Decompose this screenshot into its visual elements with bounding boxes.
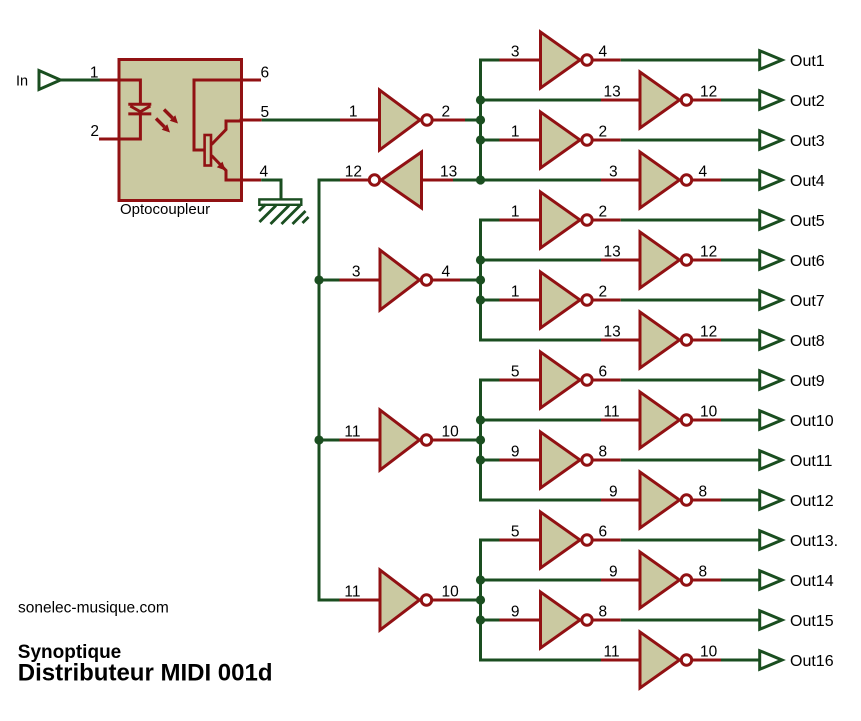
inverter Out16 [640, 632, 680, 688]
inverter Out2 input stub [601, 99, 641, 102]
node Out7 (output connector) [760, 291, 782, 310]
node Out3 (output connector) [760, 131, 782, 150]
pin 6 stub [240, 79, 262, 82]
inverter Out5 [541, 192, 581, 248]
wire driver y440 to right bus [460, 439, 481, 442]
node Out2 (output connector) [760, 91, 782, 110]
svg-text:2: 2 [599, 284, 608, 301]
inverter Out11 output stub [593, 459, 621, 462]
svg-text:8: 8 [699, 484, 708, 501]
inverter Out10 input stub [601, 419, 641, 422]
svg-text:2: 2 [442, 104, 451, 121]
inverter Out6 [640, 232, 680, 288]
svg-text:13: 13 [440, 164, 457, 181]
svg-text:5: 5 [261, 104, 270, 121]
inverter Out15 [541, 592, 581, 648]
inverter U2A [380, 90, 421, 150]
svg-text:Out13.: Out13. [790, 533, 838, 550]
wire pin6 inner to base [194, 80, 240, 150]
junction left bus y280 [314, 275, 323, 284]
inverter Out6 output stub [693, 259, 722, 262]
inverter Out11 [541, 432, 581, 488]
driver inverter y440 [380, 410, 420, 470]
light arrow 1 shaft [164, 110, 173, 119]
junction right bus y600 [476, 595, 485, 604]
wire left bus to driver y440 [319, 439, 340, 442]
inverter Out1 [541, 32, 581, 88]
inverter Out4 [640, 152, 680, 208]
inverter Out4 output stub [693, 179, 722, 182]
inverter Out12 output stub [693, 499, 722, 502]
junction right bus y120 [476, 115, 485, 124]
wire driver y280 to right bus [460, 279, 481, 282]
svg-text:Distributeur MIDI 001d: Distributeur MIDI 001d [18, 660, 273, 687]
wire driver y600 to right bus [460, 599, 481, 602]
wire Out2 to connector [721, 99, 760, 102]
LED D1 cathode bar [128, 112, 151, 115]
junction right bus y180 [476, 175, 485, 184]
driver inverter input stub y600 [340, 599, 382, 602]
svg-text:12: 12 [700, 324, 717, 341]
svg-text:Out6: Out6 [790, 253, 825, 270]
driver inverter input stub y440 [340, 439, 382, 442]
wire bus to inverter Out16 [479, 659, 601, 662]
junction right bus y260 [476, 255, 485, 264]
wire bus to inverter Out6 [479, 259, 601, 262]
ground hatch 2 [260, 206, 277, 223]
svg-text:8: 8 [599, 604, 608, 621]
inverter Out12 input stub [601, 499, 641, 502]
node Out14 (output connector) [760, 571, 782, 590]
svg-text:4: 4 [599, 44, 608, 61]
ground hatch 5 [293, 211, 306, 224]
svg-text:3: 3 [352, 264, 361, 281]
svg-text:Out7: Out7 [790, 293, 825, 310]
node Out8 (output connector) [760, 331, 782, 350]
inverter U2B (left pointing) [381, 152, 421, 208]
wire In to optocoupler pin 1 [61, 79, 101, 82]
inverter Out7 [541, 272, 581, 328]
wire Out10 to connector [721, 419, 760, 422]
svg-text:6: 6 [599, 364, 608, 381]
inverter Out15 input stub [500, 619, 542, 622]
wire bus to inverter Out3 [479, 139, 500, 142]
driver inverter output stub y440 [433, 439, 460, 442]
light arrow 2 head [162, 124, 170, 132]
wire bus to inverter Out7 [479, 299, 500, 302]
svg-text:4: 4 [699, 164, 708, 181]
inverter Out16 output stub [693, 659, 722, 662]
wire Out1 to connector [621, 59, 760, 62]
wire Out5 to connector [621, 219, 760, 222]
svg-text:9: 9 [609, 564, 618, 581]
node In (input connector) [39, 71, 61, 90]
inverter Out9 input stub [500, 379, 542, 382]
svg-text:1: 1 [511, 204, 520, 221]
inverter U2A input stub [340, 119, 381, 122]
wire left bus to driver y280 [319, 279, 340, 282]
driver inverter input stub y280 [340, 279, 382, 282]
wire Out7 to connector [621, 299, 760, 302]
junction right bus y440 [476, 435, 485, 444]
wire right bus vertical 378.5-501.5 [479, 379, 482, 502]
inverter Out3 input stub [500, 139, 542, 142]
wire pin1 inner [119, 80, 140, 103]
junction right bus y460 [476, 455, 485, 464]
wire bus to inverter Out15 [479, 619, 500, 622]
transistor Q1 collector [212, 121, 241, 145]
svg-text:Out2: Out2 [790, 93, 825, 110]
svg-text:Out5: Out5 [790, 213, 825, 230]
wire Out3 to connector [621, 139, 760, 142]
inverter Out2 output stub [693, 99, 722, 102]
node Out5 (output connector) [760, 211, 782, 230]
svg-text:Out1: Out1 [790, 53, 825, 70]
inverter Out9 [541, 352, 581, 408]
driver inverter y600 [380, 570, 420, 630]
inverter Out16 input stub [601, 659, 641, 662]
wire right bus vertical 538.5-661.5 [479, 539, 482, 662]
svg-text:10: 10 [442, 424, 460, 441]
wire LED to pin2 inner [119, 115, 140, 140]
svg-text:13: 13 [604, 84, 621, 101]
svg-text:3: 3 [609, 164, 618, 181]
svg-text:9: 9 [511, 444, 520, 461]
svg-text:5: 5 [511, 364, 520, 381]
svg-text:2: 2 [90, 123, 99, 140]
inverter Out1 output stub [593, 59, 621, 62]
junction right bus y620 [476, 615, 485, 624]
svg-text:4: 4 [260, 164, 269, 181]
svg-text:Out3: Out3 [790, 133, 825, 150]
wire Out16 to connector [721, 659, 760, 662]
svg-text:2: 2 [599, 124, 608, 141]
transistor Q1 base bar [205, 135, 211, 166]
wire left bus to driver y600 [319, 599, 340, 602]
inverter Out10 [640, 392, 680, 448]
inverter Out1 input stub [500, 59, 542, 62]
light arrow 1 head [170, 115, 178, 123]
wire bus to inverter Out4 [479, 179, 601, 182]
inverter U2B output stub [340, 179, 370, 182]
node Out15 (output connector) [760, 611, 782, 630]
svg-text:12: 12 [700, 84, 717, 101]
svg-text:10: 10 [700, 404, 718, 421]
wire bus to inverter Out8 [479, 339, 601, 342]
svg-text:12: 12 [700, 244, 717, 261]
svg-text:10: 10 [442, 584, 460, 601]
ground hatch 3 [271, 206, 290, 225]
svg-text:10: 10 [700, 644, 718, 661]
inverter Out15 output stub [593, 619, 621, 622]
node Out16 (output connector) [760, 651, 782, 670]
wire U2B out to left bus [319, 179, 340, 182]
svg-text:1: 1 [90, 65, 99, 82]
wire right bus vertical 58.5-181.5 [479, 59, 482, 182]
svg-text:11: 11 [604, 404, 620, 421]
inverter Out3 output stub [593, 139, 621, 142]
pin 5 stub [240, 119, 262, 122]
svg-text:Out14: Out14 [790, 573, 834, 590]
wire Out11 to connector [621, 459, 760, 462]
svg-text:Out10: Out10 [790, 413, 834, 430]
junction right bus y300 [476, 295, 485, 304]
node Out6 (output connector) [760, 251, 782, 270]
wire left bus vertical [318, 179, 321, 602]
optocoupleur U1 body [119, 60, 242, 201]
wire bus to inverter Out10 [479, 419, 601, 422]
wire right bus vertical 218.5-341.5 [479, 219, 482, 342]
inverter Out8 output stub [693, 339, 722, 342]
svg-text:1: 1 [511, 284, 520, 301]
inverter Out4 input stub [601, 179, 641, 182]
wire pin5 to inverter U2A [262, 119, 340, 122]
svg-text:11: 11 [344, 584, 360, 601]
node Out11 (output connector) [760, 451, 782, 470]
svg-text:9: 9 [511, 604, 520, 621]
pin 2 stub [99, 138, 121, 141]
inverter Out10 output stub [693, 419, 722, 422]
inverter Out12 [640, 472, 680, 528]
svg-text:sonelec-musique.com: sonelec-musique.com [18, 600, 169, 617]
inverter Out11 input stub [500, 459, 542, 462]
junction right bus y280 [476, 275, 485, 284]
wire Out6 to connector [721, 259, 760, 262]
inverter Out9 output stub [593, 379, 621, 382]
wire Out12 to connector [721, 499, 760, 502]
wire Out4 to connector [721, 179, 760, 182]
node Out4 (output connector) [760, 171, 782, 190]
ground hatch 6 [303, 217, 309, 223]
wire pin4 to ground [261, 180, 281, 200]
svg-text:8: 8 [699, 564, 708, 581]
inverter Out7 input stub [500, 299, 542, 302]
wire Out13 to connector [621, 539, 760, 542]
svg-text:13: 13 [604, 324, 621, 341]
svg-text:Optocoupleur: Optocoupleur [120, 201, 210, 218]
inverter Out14 output stub [693, 579, 722, 582]
inverter Out8 input stub [601, 339, 641, 342]
wire Out14 to connector [721, 579, 760, 582]
svg-text:Out15: Out15 [790, 613, 834, 630]
driver inverter y280 [380, 250, 420, 310]
inverter U2B input stub [422, 179, 454, 182]
inverter Out5 input stub [500, 219, 542, 222]
inverter Out5 output stub [593, 219, 621, 222]
svg-text:9: 9 [609, 484, 618, 501]
junction right bus y420 [476, 415, 485, 424]
wire Out9 to connector [621, 379, 760, 382]
svg-text:Out11: Out11 [790, 453, 833, 470]
wire bus to inverter Out9 [479, 379, 500, 382]
junction right bus y140 [476, 135, 485, 144]
pin 1 stub [100, 79, 121, 82]
light arrow 2 shaft [156, 119, 165, 128]
inverter Out3 [541, 112, 581, 168]
wire U2A to bus [465, 119, 481, 122]
ground hatch 1 [259, 205, 266, 212]
svg-text:13: 13 [604, 244, 621, 261]
svg-text:Out9: Out9 [790, 373, 825, 390]
junction right bus y580 [476, 575, 485, 584]
junction right bus y100 [476, 95, 485, 104]
junction left bus y440 [314, 435, 323, 444]
driver inverter output stub y600 [433, 599, 460, 602]
inverter Out14 input stub [601, 579, 641, 582]
inverter Out8 [640, 312, 680, 368]
transistor Q1 emitter arrow [217, 162, 226, 171]
inverter Out14 [640, 552, 680, 608]
node Out9 (output connector) [760, 371, 782, 390]
LED D1 anode bar [128, 103, 151, 106]
wire U2B in to bus [453, 179, 481, 182]
svg-text:5: 5 [511, 524, 520, 541]
svg-text:4: 4 [442, 264, 451, 281]
wire bus to inverter Out5 [479, 219, 500, 222]
svg-text:1: 1 [511, 124, 520, 141]
wire bus to inverter Out14 [479, 579, 601, 582]
LED D1 triangle [130, 106, 150, 112]
svg-text:Out16: Out16 [790, 653, 834, 670]
ground bar [259, 199, 301, 204]
wire bus to inverter Out2 [479, 99, 601, 102]
svg-text:8: 8 [599, 444, 608, 461]
svg-text:11: 11 [344, 424, 360, 441]
wire Out15 to connector [621, 619, 760, 622]
wire Out8 to connector [721, 339, 760, 342]
node Out1 (output connector) [760, 51, 782, 70]
inverter Out2 [640, 72, 680, 128]
svg-text:1: 1 [349, 104, 358, 121]
wire bus to inverter Out11 [479, 459, 500, 462]
wire bus to inverter Out12 [479, 499, 601, 502]
ground hatch 4 [282, 206, 301, 225]
svg-text:3: 3 [511, 44, 520, 61]
node Out12 (output connector) [760, 491, 782, 510]
svg-text:2: 2 [599, 204, 608, 221]
wire bus to inverter Out1 [479, 59, 500, 62]
inverter Out7 output stub [593, 299, 621, 302]
inverter Out13 output stub [593, 539, 621, 542]
pin 4 stub [240, 179, 262, 182]
node Out10 (output connector) [760, 411, 782, 430]
inverter Out13 input stub [500, 539, 542, 542]
svg-text:Out4: Out4 [790, 173, 825, 190]
svg-text:11: 11 [604, 644, 620, 661]
inverter Out6 input stub [601, 259, 641, 262]
svg-text:6: 6 [599, 524, 608, 541]
driver inverter output stub y280 [433, 279, 460, 282]
transistor Q1 emitter [212, 156, 241, 181]
svg-text:Out12: Out12 [790, 493, 834, 510]
inverter U2A output stub [433, 119, 466, 122]
wire bus to inverter Out13 [479, 539, 500, 542]
node Out13 (output connector) [760, 531, 782, 550]
svg-text:Out8: Out8 [790, 333, 825, 350]
svg-text:6: 6 [261, 65, 270, 82]
inverter Out13 [541, 512, 581, 568]
svg-text:12: 12 [345, 164, 362, 181]
svg-text:In: In [16, 74, 28, 90]
